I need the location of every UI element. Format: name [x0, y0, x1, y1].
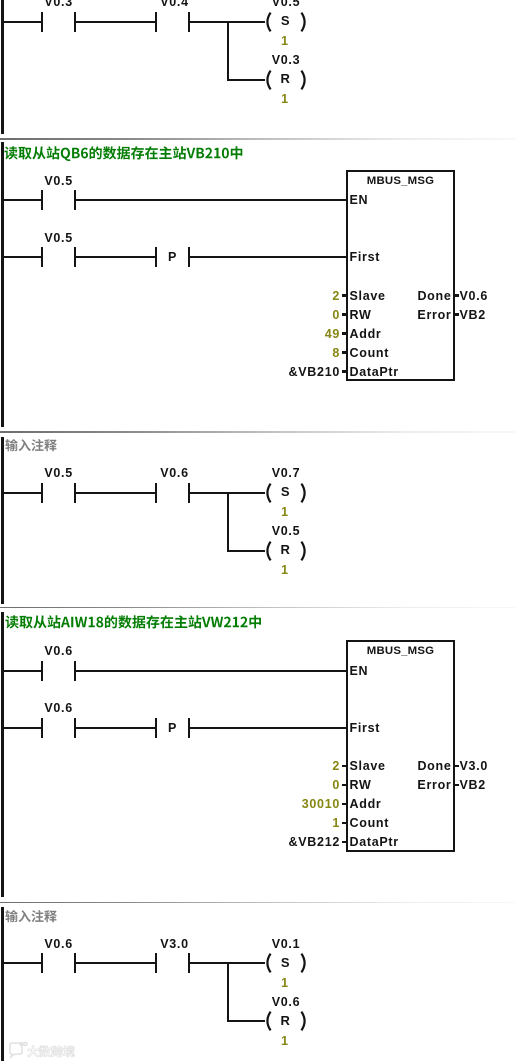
node branch junction	[227, 492, 229, 552]
block U1 pin Addr	[350, 328, 382, 340]
wire contact V0.4 to coil V0.5	[190, 21, 265, 23]
contact V0.6	[155, 483, 157, 503]
contact V0.6 label	[44, 645, 73, 657]
contact V0.6	[41, 718, 43, 738]
block U2 input value 1	[332, 817, 340, 829]
block U2 output operand V3.0	[460, 760, 489, 772]
block U2 title MBUS_MSG	[367, 645, 434, 657]
block U1 pin Slave	[350, 290, 386, 302]
coil V0.5 value 1	[281, 35, 289, 47]
contact V0.4	[155, 12, 157, 32]
block U1 output operand VB2	[460, 309, 486, 321]
contact V0.3 label	[44, 0, 73, 8]
wire rail to contact V0.3	[3, 21, 41, 23]
coil V0.7 (S)	[262, 482, 310, 504]
coil V0.5 value 1	[281, 564, 289, 576]
coil V0.7 label	[272, 467, 301, 479]
contact V0.5 label	[44, 232, 73, 244]
block U1 pin DataPtr	[350, 366, 399, 378]
wire contact V0.6 to contact V3.0	[76, 962, 155, 964]
contact V0.5	[41, 483, 43, 503]
wire rail to contact V0.5 (First row)	[3, 256, 41, 258]
block U1 title MBUS_MSG	[367, 175, 434, 187]
wire contact V0.6 to coil V0.7	[190, 492, 265, 494]
block U2 pin Done tick	[453, 765, 459, 768]
block U1 pin EN	[350, 194, 369, 206]
contact V3.0 label	[160, 938, 189, 950]
block U1 input value 0	[332, 309, 340, 321]
function block MBUS_MSG U2 box	[346, 640, 455, 852]
block U1 input value 8	[332, 347, 340, 359]
block U2 input value 30010	[302, 798, 340, 810]
coil V0.6 label	[272, 996, 301, 1008]
wire P contact to First	[190, 727, 347, 729]
block U1 pin Addr tick	[342, 332, 348, 335]
wire rail to contact V0.6 (First row)	[3, 727, 41, 729]
block U2 input value 2	[332, 760, 340, 772]
wire contact V0.6 to P contact	[76, 727, 155, 729]
contact P (positive edge)	[155, 718, 157, 738]
block U1 pin DataPtr tick	[342, 370, 348, 373]
block U1 pin RW tick	[342, 313, 348, 316]
contact V0.6 label	[44, 938, 73, 950]
block U1 pin Count tick	[342, 351, 348, 354]
block U1 pin RW	[350, 309, 372, 321]
contact V0.5 label	[44, 175, 73, 187]
contact V0.6 label	[160, 467, 189, 479]
block U1 pin Slave tick	[342, 294, 348, 297]
wire branch to coil V0.5	[228, 550, 265, 552]
comment text: 输入注释	[5, 906, 59, 925]
node branch junction	[227, 21, 229, 81]
block U2 pin First	[350, 722, 381, 734]
left power rail segment 1	[1, 0, 4, 134]
contact V0.5	[41, 190, 43, 210]
block U1 input value 49	[325, 328, 340, 340]
network divider (below network 1)	[0, 138, 516, 140]
block U2 pin Error	[417, 779, 451, 791]
block U2 pin DataPtr	[350, 836, 399, 848]
wire rail to contact V0.5 (EN row)	[3, 199, 41, 201]
block U2 pin Error tick	[453, 784, 459, 787]
contact V0.6	[41, 953, 43, 973]
coil V0.3 value 1	[281, 93, 289, 105]
wire contact V0.5 to contact V0.6	[76, 492, 155, 494]
comment text: 输入注释	[5, 435, 59, 454]
coil V0.1 (S)	[262, 952, 310, 974]
left power rail segment 3	[1, 437, 4, 604]
block U2 pin Slave tick	[342, 765, 348, 768]
block U1 pin First	[350, 251, 381, 263]
coil V0.5 label	[272, 0, 301, 8]
block U2 pin Count	[350, 817, 390, 829]
contact V3.0	[155, 953, 157, 973]
contact V0.6	[41, 661, 43, 681]
block U2 pin EN	[350, 665, 369, 677]
contact V0.6 label	[44, 702, 73, 714]
block U2 pin RW	[350, 779, 372, 791]
block U2 input value &VB212	[289, 836, 340, 848]
wire branch to coil V0.6	[228, 1020, 265, 1022]
block U1 output operand V0.6	[460, 290, 489, 302]
coil V0.7 value 1	[281, 506, 289, 518]
block U1 input value &VB210	[289, 366, 340, 378]
wire branch to coil V0.3	[228, 79, 265, 81]
wire contact V0.6 to EN	[76, 670, 347, 672]
block U2 input value 0	[332, 779, 340, 791]
contact V0.5	[41, 247, 43, 267]
block U1 pin Done	[417, 290, 451, 302]
function block MBUS_MSG U1 box	[346, 170, 455, 382]
coil V0.5 (S)	[262, 11, 310, 33]
block U1 pin Error	[417, 309, 451, 321]
coil V0.3 (R)	[262, 69, 310, 91]
wire rail to contact V0.6	[3, 962, 41, 964]
watermark logo	[7, 1041, 87, 1059]
comment text: 读取从站QB6的数据存在主站VB210中	[4, 142, 245, 163]
left power rail segment 4	[1, 612, 4, 897]
coil V0.1 value 1	[281, 977, 289, 989]
block U2 pin Slave	[350, 760, 386, 772]
block U2 pin DataPtr tick	[342, 841, 348, 844]
left power rail segment 5	[1, 907, 4, 1061]
comment text: 读取从站AIW18的数据存在主站VW212中	[5, 611, 264, 632]
block U2 pin Done	[417, 760, 451, 772]
contact V0.3	[41, 12, 43, 32]
block U1 pin Count	[350, 347, 390, 359]
wire contact V0.5 to EN	[76, 199, 347, 201]
node branch junction	[227, 962, 229, 1022]
block U2 output operand VB2	[460, 779, 486, 791]
network divider (below network 3)	[0, 607, 516, 609]
wire P contact to First	[190, 256, 347, 258]
block U2 pin Count tick	[342, 822, 348, 825]
block U1 input value 2	[332, 290, 340, 302]
block U2 pin Addr	[350, 798, 382, 810]
left power rail segment 2	[1, 142, 4, 427]
block U1 pin Error tick	[453, 313, 459, 316]
coil V0.3 label	[272, 54, 301, 66]
wire contact V0.3 to contact V0.4	[76, 21, 155, 23]
block U2 pin Addr tick	[342, 803, 348, 806]
block U1 pin Done tick	[453, 294, 459, 297]
wire contact V0.5 to P contact	[76, 256, 155, 258]
coil V0.6 (R)	[262, 1010, 310, 1032]
coil V0.6 value 1	[281, 1035, 289, 1047]
network divider (below network 2)	[0, 431, 516, 433]
watermark text 大数跨境	[27, 1042, 77, 1060]
wire contact V3.0 to coil V0.1	[190, 962, 265, 964]
contact P (positive edge)	[155, 247, 157, 267]
coil V0.5 (R)	[262, 540, 310, 562]
coil V0.5 label	[272, 525, 301, 537]
wire rail to contact V0.5	[3, 492, 41, 494]
contact V0.5 label	[44, 467, 73, 479]
network divider (below network 4)	[0, 902, 516, 904]
wire rail to contact V0.6 (EN row)	[3, 670, 41, 672]
contact V0.4 label	[160, 0, 189, 8]
coil V0.1 label	[272, 938, 301, 950]
block U2 pin RW tick	[342, 784, 348, 787]
